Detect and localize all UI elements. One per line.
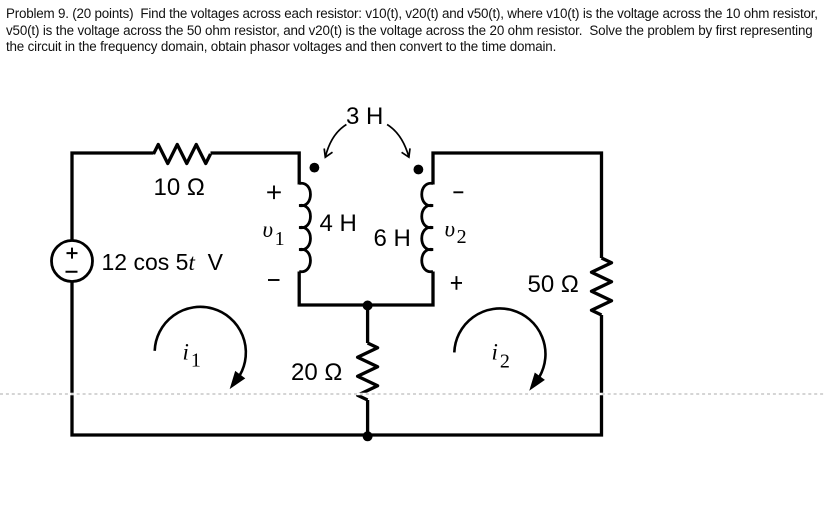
svg-text:i2: i2 [492, 339, 510, 372]
mesh current arrow i2 [454, 308, 545, 388]
wire bottom-left rail to source [72, 281, 368, 435]
svg-text:3 H: 3 H [346, 103, 383, 130]
inductor L1 4H [299, 183, 310, 271]
svg-text:i1: i1 [183, 340, 201, 372]
junction node bottom of 20 ohm [363, 431, 373, 441]
resistor 10 ohm [154, 145, 211, 164]
wire top-right from right inductor to right rail [433, 153, 602, 258]
inductor L2 6H [422, 183, 433, 271]
voltage source 12 cos 5t V [52, 241, 93, 282]
svg-text:υ1: υ1 [263, 217, 285, 250]
junction node top of 20 ohm [363, 301, 373, 311]
svg-text:4 H: 4 H [320, 210, 357, 237]
svg-text:10 Ω: 10 Ω [154, 174, 205, 201]
resistor 20 ohm [358, 343, 378, 400]
mutual arrow right [387, 125, 410, 158]
svg-text:50 Ω: 50 Ω [528, 271, 579, 298]
wire inner bottom U connecting both inductors [299, 272, 433, 306]
svg-text:6 H: 6 H [374, 225, 411, 252]
page break dashed line [0, 393, 825, 395]
svg-text:12 cos 5t V: 12 cos 5t V [102, 249, 224, 275]
mutual arrow left [324, 125, 346, 158]
coupling dot right [414, 165, 424, 175]
label minus of v1 [268, 279, 280, 281]
resistor 50 ohm [592, 258, 612, 315]
coupling dot left [310, 163, 320, 173]
svg-text:υ2: υ2 [445, 217, 467, 249]
wire middle branch upper [366, 305, 369, 343]
mesh current arrow i1 [155, 307, 246, 387]
label plus of v1 [267, 186, 281, 200]
wire middle branch lower [366, 400, 369, 435]
label plus of v2 [451, 276, 462, 290]
label minus of v2 [453, 191, 463, 193]
wire top-middle from resistor to left inductor [211, 153, 300, 185]
wire right-bottom rail [368, 315, 602, 435]
wire top-left from source to 10-ohm resistor [72, 153, 154, 241]
svg-text:20 Ω: 20 Ω [291, 359, 342, 386]
